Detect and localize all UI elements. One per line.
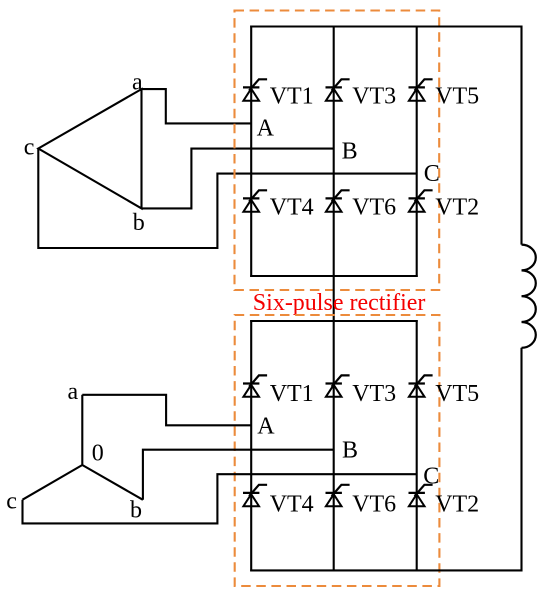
DC positive rail (bridge 1 top, bends down to right DC wire): [250, 27, 521, 245]
wire delta a to node A: [142, 89, 252, 123]
svg-text:C: C: [424, 161, 440, 187]
transformer delta winding (top): [38, 89, 141, 208]
svg-text:C: C: [423, 463, 439, 489]
dashed boundary box: six-pulse rectifier 2: [235, 315, 440, 586]
svg-text:c: c: [6, 489, 17, 515]
thyristor VT2 (bridge 1): [409, 190, 433, 211]
svg-text:a: a: [68, 379, 79, 405]
bridge 2 top rail: [250, 320, 418, 322]
bridge 1 left leg (phase A): [250, 26, 252, 278]
smoothing inductor Ld: [522, 245, 536, 348]
svg-text:a: a: [132, 70, 143, 96]
bridge 2 middle leg (phase B): [333, 320, 335, 571]
wire wye c to node C: [23, 474, 417, 523]
thyristor VT1 (bridge 1): [243, 79, 267, 100]
bridge 1 middle leg (phase B): [333, 26, 335, 278]
svg-text:VT1: VT1: [270, 84, 314, 110]
svg-text:VT5: VT5: [435, 381, 479, 407]
transformer wye winding (bottom): [23, 395, 143, 500]
wire delta b to node B: [142, 149, 334, 209]
thyristor VT4 (bridge 1): [243, 190, 267, 211]
thyristor VT6 (bridge 1): [326, 190, 350, 211]
svg-text:VT3: VT3: [352, 84, 396, 110]
thyristor VT3 (bridge 1): [326, 79, 350, 100]
thyristor VT6 (bridge 2): [326, 485, 350, 506]
svg-text:VT3: VT3: [352, 381, 396, 407]
thyristor VT5 (bridge 1): [409, 79, 433, 100]
DC negative rail (bridge 2 bottom, bends up to right DC wire): [250, 348, 521, 571]
svg-text:0: 0: [92, 440, 104, 466]
svg-text:VT5: VT5: [435, 84, 479, 110]
svg-text:VT4: VT4: [270, 491, 314, 517]
bridge 2 right leg (phase C): [416, 320, 418, 571]
svg-text:VT4: VT4: [270, 195, 314, 221]
wire delta c to node C: [38, 149, 416, 249]
series link wire between bridge 1 and bridge 2: [333, 276, 335, 321]
dashed boundary box: six-pulse rectifier 1: [235, 11, 440, 291]
svg-text:c: c: [24, 134, 35, 160]
svg-text:VT6: VT6: [352, 195, 396, 221]
svg-text:Six-pulse rectifier: Six-pulse rectifier: [253, 290, 426, 316]
svg-text:B: B: [342, 437, 358, 463]
svg-text:b: b: [130, 498, 142, 524]
thyristor VT2 (bridge 2): [409, 485, 433, 506]
thyristor VT4 (bridge 2): [243, 485, 267, 506]
bridge 1 bottom rail: [250, 275, 418, 277]
thyristor VT1 (bridge 2): [243, 375, 267, 396]
svg-text:VT2: VT2: [435, 195, 479, 221]
thyristor VT3 (bridge 2): [326, 375, 350, 396]
svg-text:A: A: [257, 116, 275, 142]
bridge 1 right leg (phase C): [416, 26, 418, 278]
wire wye b to node B: [143, 450, 334, 500]
svg-text:VT2: VT2: [435, 491, 479, 517]
svg-text:A: A: [257, 414, 275, 440]
wire wye a to node A: [82, 395, 251, 426]
svg-text:VT6: VT6: [352, 491, 396, 517]
bridge 2 left leg (phase A): [250, 320, 252, 571]
thyristor VT5 (bridge 2): [409, 375, 433, 396]
svg-text:b: b: [133, 210, 145, 236]
svg-text:VT1: VT1: [270, 381, 314, 407]
svg-text:B: B: [342, 138, 358, 164]
